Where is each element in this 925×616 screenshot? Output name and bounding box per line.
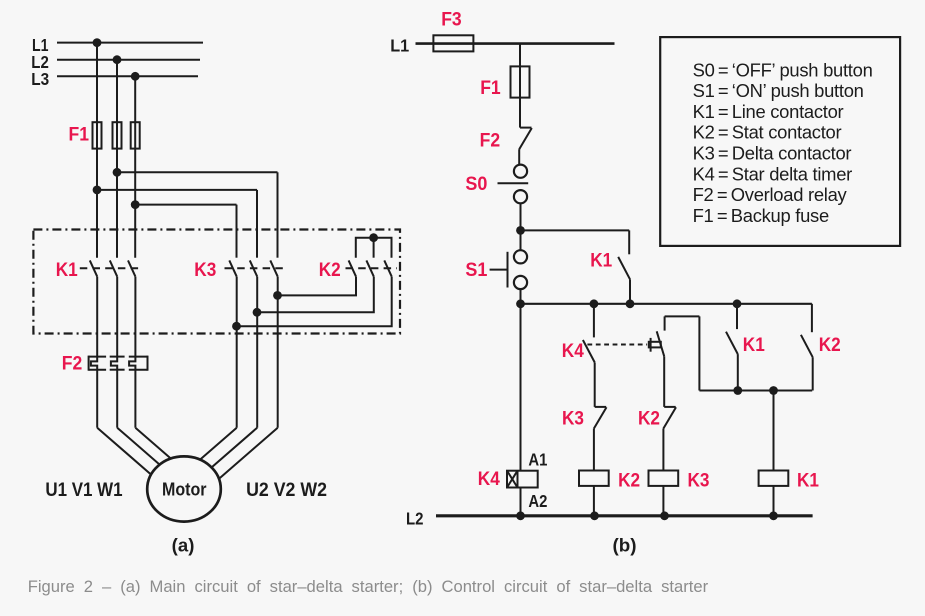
svg-text:K3: K3 (562, 408, 584, 429)
svg-text:S0 = ‘OFF’ push button: S0 = ‘OFF’ push button (693, 59, 873, 80)
svg-text:K2 = Stat contactor: K2 = Stat contactor (693, 122, 842, 143)
svg-text:K1 = Line contactor: K1 = Line contactor (693, 101, 844, 122)
svg-text:Motor: Motor (162, 478, 207, 499)
svg-text:K4: K4 (478, 469, 500, 490)
svg-text:K1: K1 (743, 335, 765, 356)
svg-text:F2 = Overload relay: F2 = Overload relay (693, 184, 848, 205)
svg-text:F1: F1 (69, 125, 90, 146)
svg-text:K1: K1 (797, 471, 819, 492)
svg-text:(b): (b) (613, 535, 637, 556)
svg-text:L3: L3 (31, 69, 49, 89)
svg-text:K3: K3 (688, 471, 710, 492)
svg-text:S1: S1 (465, 260, 487, 281)
svg-text:K3 = Delta contactor: K3 = Delta contactor (693, 143, 852, 164)
svg-text:L1: L1 (390, 35, 409, 55)
svg-text:L2: L2 (406, 509, 424, 529)
svg-text:K2: K2 (638, 408, 660, 429)
svg-text:S1 = ‘ON’ push button: S1 = ‘ON’ push button (693, 80, 864, 101)
svg-text:K2: K2 (319, 260, 341, 281)
svg-text:F3: F3 (441, 9, 462, 30)
svg-text:(a): (a) (172, 535, 195, 556)
svg-text:A2: A2 (528, 491, 547, 511)
svg-text:K1: K1 (590, 251, 612, 272)
svg-text:S0: S0 (465, 174, 487, 195)
svg-text:F1 = Backup fuse: F1 = Backup fuse (693, 205, 829, 226)
svg-text:A1: A1 (528, 449, 547, 469)
svg-text:K2: K2 (819, 335, 841, 356)
svg-text:F2: F2 (480, 130, 501, 151)
svg-text:K3: K3 (194, 260, 216, 281)
svg-text:K4: K4 (562, 341, 584, 362)
svg-text:K4 = Star delta timer: K4 = Star delta timer (693, 163, 853, 184)
svg-text:K2: K2 (618, 471, 640, 492)
svg-text:F2: F2 (62, 353, 83, 374)
svg-text:Figure 2 – (a) Main circuit of: Figure 2 – (a) Main circuit of star–delt… (28, 577, 709, 596)
svg-text:F1: F1 (480, 78, 501, 99)
svg-text:U2 V2 W2: U2 V2 W2 (246, 480, 327, 501)
svg-text:K1: K1 (56, 260, 78, 281)
svg-text:U1 V1 W1: U1 V1 W1 (45, 480, 123, 501)
